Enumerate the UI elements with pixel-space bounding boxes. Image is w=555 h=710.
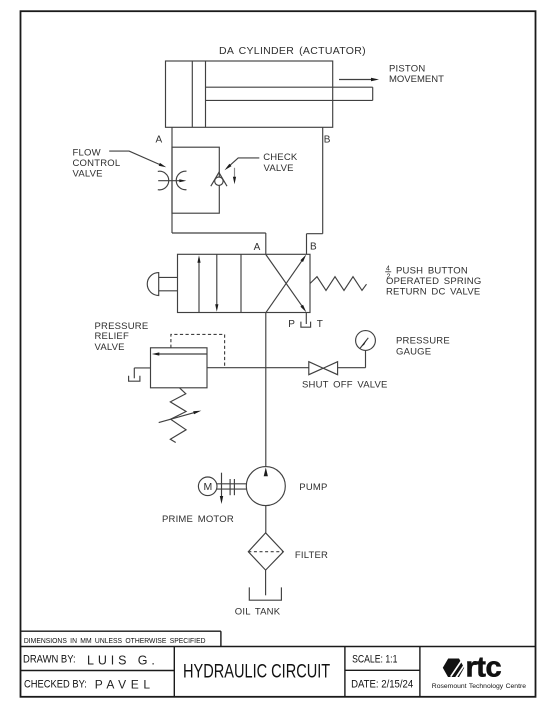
- svg-text:SCALE: 1:1: SCALE: 1:1: [352, 653, 397, 665]
- svg-text:PUMP: PUMP: [299, 482, 327, 493]
- svg-text:DIMENSIONS IN MM UNLESS OTHERW: DIMENSIONS IN MM UNLESS OTHERWISE SPECIF…: [24, 638, 206, 645]
- svg-text:GAUGE: GAUGE: [396, 347, 431, 358]
- svg-text:T: T: [317, 319, 324, 330]
- svg-text:FILTER: FILTER: [295, 550, 328, 561]
- svg-text:PISTON: PISTON: [389, 64, 425, 75]
- svg-text:HYDRAULIC CIRCUIT: HYDRAULIC CIRCUIT: [183, 662, 331, 683]
- svg-text:PAVEL: PAVEL: [95, 677, 155, 691]
- svg-text:Rosemount Technology Centre: Rosemount Technology Centre: [432, 683, 526, 690]
- svg-text:RETURN DC VALVE: RETURN DC VALVE: [386, 286, 480, 297]
- svg-text:M: M: [204, 481, 213, 493]
- svg-text:MOVEMENT: MOVEMENT: [389, 74, 444, 85]
- svg-text:OPERATED SPRING: OPERATED SPRING: [386, 276, 481, 287]
- svg-text:FLOW: FLOW: [73, 148, 101, 159]
- svg-text:CONTROL: CONTROL: [73, 158, 121, 169]
- svg-text:PRESSURE: PRESSURE: [396, 336, 450, 347]
- svg-text:VALVE: VALVE: [264, 163, 294, 174]
- svg-text:A: A: [156, 135, 163, 146]
- svg-text:CHECKED BY:: CHECKED BY:: [24, 679, 87, 691]
- svg-text:DRAWN BY:: DRAWN BY:: [23, 654, 76, 666]
- svg-text:DA CYLINDER (ACTUATOR): DA CYLINDER (ACTUATOR): [219, 45, 366, 57]
- svg-text:4: 4: [386, 265, 390, 272]
- svg-text:rtc: rtc: [466, 651, 502, 683]
- svg-text:OIL TANK: OIL TANK: [235, 606, 281, 617]
- svg-text:CHECK: CHECK: [263, 152, 298, 163]
- svg-text:A: A: [254, 242, 261, 253]
- svg-text:VALVE: VALVE: [95, 342, 125, 353]
- svg-text:P: P: [288, 319, 295, 330]
- svg-text:RELIEF: RELIEF: [95, 331, 129, 342]
- svg-text:VALVE: VALVE: [73, 169, 103, 180]
- svg-text:B: B: [310, 242, 317, 253]
- svg-text:B: B: [324, 135, 331, 146]
- svg-text:DATE: 2/15/24: DATE: 2/15/24: [351, 679, 413, 691]
- svg-text:PRIME MOTOR: PRIME MOTOR: [162, 514, 234, 525]
- svg-text:SHUT OFF VALVE: SHUT OFF VALVE: [302, 380, 388, 391]
- svg-text:LUIS G.: LUIS G.: [87, 653, 159, 667]
